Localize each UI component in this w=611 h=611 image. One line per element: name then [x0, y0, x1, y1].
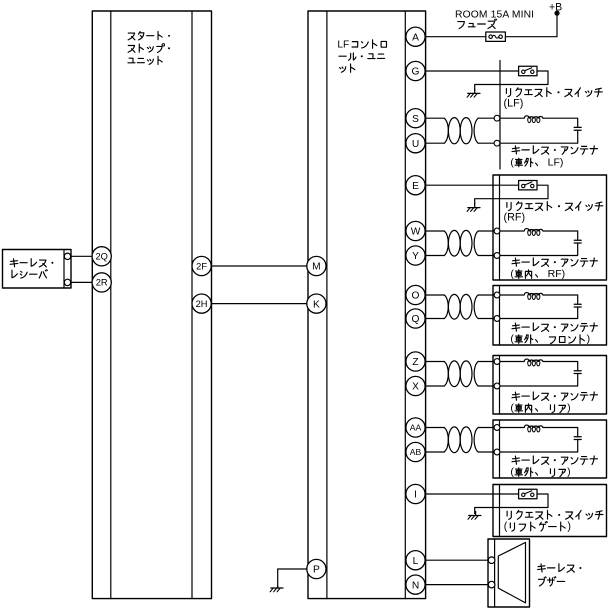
fuse ROOM 15A MINI [486, 32, 506, 41]
svg-text:+B: +B [549, 2, 562, 14]
svg-text:A: A [412, 32, 419, 43]
svg-text:AA: AA [410, 423, 422, 433]
terminal A [406, 27, 425, 46]
keyless antenna (outside LF) [494, 115, 581, 146]
svg-text:2H: 2H [196, 299, 208, 309]
request switch (RF) [425, 181, 548, 205]
ground (request switch LF) [467, 89, 480, 97]
svg-text:U: U [412, 139, 419, 150]
twisted pair S-U [425, 118, 497, 144]
label +B [549, 2, 562, 14]
label (outside LF) [510, 156, 563, 168]
svg-text:X: X [412, 382, 419, 393]
svg-text:W: W [411, 227, 421, 238]
svg-text:(: ( [510, 268, 514, 280]
svg-text:I: I [414, 490, 417, 501]
wire P to ground [278, 569, 307, 588]
node +B [554, 11, 559, 16]
start-stop unit box [92, 11, 211, 599]
svg-text:(RF): (RF) [504, 211, 526, 223]
label request switch liftgate [507, 510, 603, 519]
terminal W [406, 221, 425, 240]
svg-text:L: L [413, 556, 419, 567]
buzzer pin (L) [488, 557, 495, 564]
svg-text:): ) [567, 520, 571, 532]
terminal X [406, 376, 425, 395]
svg-text:(LF): (LF) [504, 97, 524, 109]
label (RF) [504, 211, 526, 223]
svg-text:(: ( [504, 520, 508, 532]
label (inside RF) [510, 268, 565, 280]
svg-text:G: G [412, 67, 420, 78]
receiver pin (to 2R) [64, 279, 70, 285]
svg-text:E: E [412, 181, 419, 192]
liftgate box inner rail [499, 485, 501, 537]
buzzer pin (N) [488, 581, 495, 588]
svg-text:Y: Y [412, 251, 419, 262]
svg-text:RF): RF) [548, 268, 566, 280]
svg-text:): ) [587, 333, 591, 345]
svg-text:P: P [313, 565, 320, 576]
svg-text:Z: Z [412, 357, 418, 368]
svg-text:N: N [412, 580, 419, 591]
keyless receiver connector rail [63, 250, 65, 289]
keyless antenna (inside rear) [494, 359, 581, 389]
terminal 2F [192, 256, 211, 275]
label keyless antenna front [512, 323, 598, 331]
terminal G [406, 61, 425, 80]
terminal N [406, 575, 425, 594]
antenna box (inside rear) [493, 356, 607, 415]
terminal 2H [192, 294, 211, 313]
front box inner rail [499, 286, 501, 346]
wire 2H to K [211, 303, 308, 305]
start-stop unit right connector rail [191, 11, 193, 599]
svg-text:): ) [567, 402, 571, 414]
ground (LF control unit P) [270, 586, 283, 592]
LF control unit label [337, 40, 386, 73]
terminal P [307, 559, 326, 578]
terminal S [406, 109, 425, 128]
buzzer inner rail [494, 539, 496, 607]
terminal 2R [92, 273, 111, 292]
svg-text:(: ( [510, 466, 514, 478]
antenna box (outside front) [493, 286, 607, 346]
label keyless buzzer [538, 564, 582, 586]
terminal 2Q [92, 247, 111, 266]
label (outside front) [510, 333, 590, 345]
terminal M [307, 256, 326, 275]
svg-text:S: S [412, 114, 419, 125]
twisted pair Z-X [425, 361, 497, 387]
keyless receiver label [10, 259, 53, 278]
terminal O [406, 285, 425, 304]
svg-text:Q: Q [412, 314, 420, 325]
wire 2F to M [211, 265, 308, 267]
LF control unit left connector rail [326, 11, 328, 599]
svg-text:2Q: 2Q [95, 252, 107, 262]
svg-text:K: K [313, 299, 320, 310]
keyless antenna (outside rear) [494, 425, 581, 455]
label (inside rear) [510, 402, 570, 414]
svg-text:ROOM 15A MINI: ROOM 15A MINI [455, 9, 534, 20]
wire N to buzzer [425, 584, 492, 586]
wire A to fuse [425, 36, 486, 38]
wire receiver to 2R [71, 281, 93, 283]
terminal AB [406, 442, 425, 461]
keyless buzzer box [488, 539, 530, 607]
label keyless antenna RF [512, 258, 598, 266]
label request switch RF [507, 202, 603, 211]
terminal E [406, 176, 425, 195]
svg-text:LF): LF) [548, 156, 564, 168]
start-stop unit label [128, 31, 170, 64]
rear-in box inner rail [499, 356, 501, 415]
wire receiver to 2Q [71, 255, 93, 257]
buzzer horn [498, 542, 525, 603]
svg-text:LF: LF [337, 40, 349, 51]
terminal Q [406, 309, 425, 328]
request switch RF box [493, 175, 607, 280]
LF control unit box [308, 11, 426, 599]
label request switch LF [506, 88, 602, 97]
terminal AA [406, 418, 425, 437]
terminal Z [406, 352, 425, 371]
twisted pair AA-AB [425, 427, 497, 453]
keyless antenna (inside RF) [494, 228, 581, 258]
terminal U [406, 134, 425, 153]
label keyless antenna rear-out [512, 456, 598, 464]
ground (request switch liftgate) [468, 512, 481, 520]
svg-text:(: ( [510, 156, 514, 168]
terminal Y [406, 246, 425, 265]
terminal L [406, 551, 425, 570]
wire L to buzzer [425, 559, 492, 561]
wire fuse to +B [505, 14, 557, 37]
twisted pair O-Q [425, 294, 497, 319]
antenna box (outside rear) [493, 420, 607, 478]
request switch box (liftgate) [493, 485, 607, 537]
fuse label (fuse) [458, 19, 497, 29]
ground (request switch RF) [467, 203, 480, 211]
svg-text:): ) [567, 466, 571, 478]
svg-text:AB: AB [410, 447, 422, 457]
svg-text:M: M [312, 262, 321, 273]
label (outside rear) [510, 466, 570, 478]
label (LF) [504, 97, 524, 109]
terminal K [307, 294, 326, 313]
start-stop unit left connector rail [110, 11, 112, 599]
twisted pair W-Y [425, 230, 497, 256]
svg-text:(: ( [510, 402, 514, 414]
LF group boundary line [499, 61, 501, 170]
request switch (LF) [425, 66, 548, 90]
LF control unit right connector rail [404, 11, 406, 599]
keyless antenna (outside front) [494, 292, 581, 321]
keyless receiver box [3, 250, 72, 289]
terminal I [406, 484, 425, 503]
svg-text:2R: 2R [96, 278, 108, 288]
label keyless antenna LF [512, 146, 598, 154]
label keyless antenna rear-in [512, 392, 598, 400]
RF box inner rail [499, 175, 501, 280]
svg-text:O: O [412, 291, 420, 302]
receiver pin (to 2Q) [64, 253, 70, 259]
label (liftgate) [504, 520, 571, 532]
svg-text:2F: 2F [196, 261, 207, 271]
request switch (liftgate) [425, 489, 548, 513]
fuse label ROOM 15A MINI [455, 9, 534, 20]
rear-out box inner rail [499, 420, 501, 478]
svg-text:(: ( [510, 333, 514, 345]
